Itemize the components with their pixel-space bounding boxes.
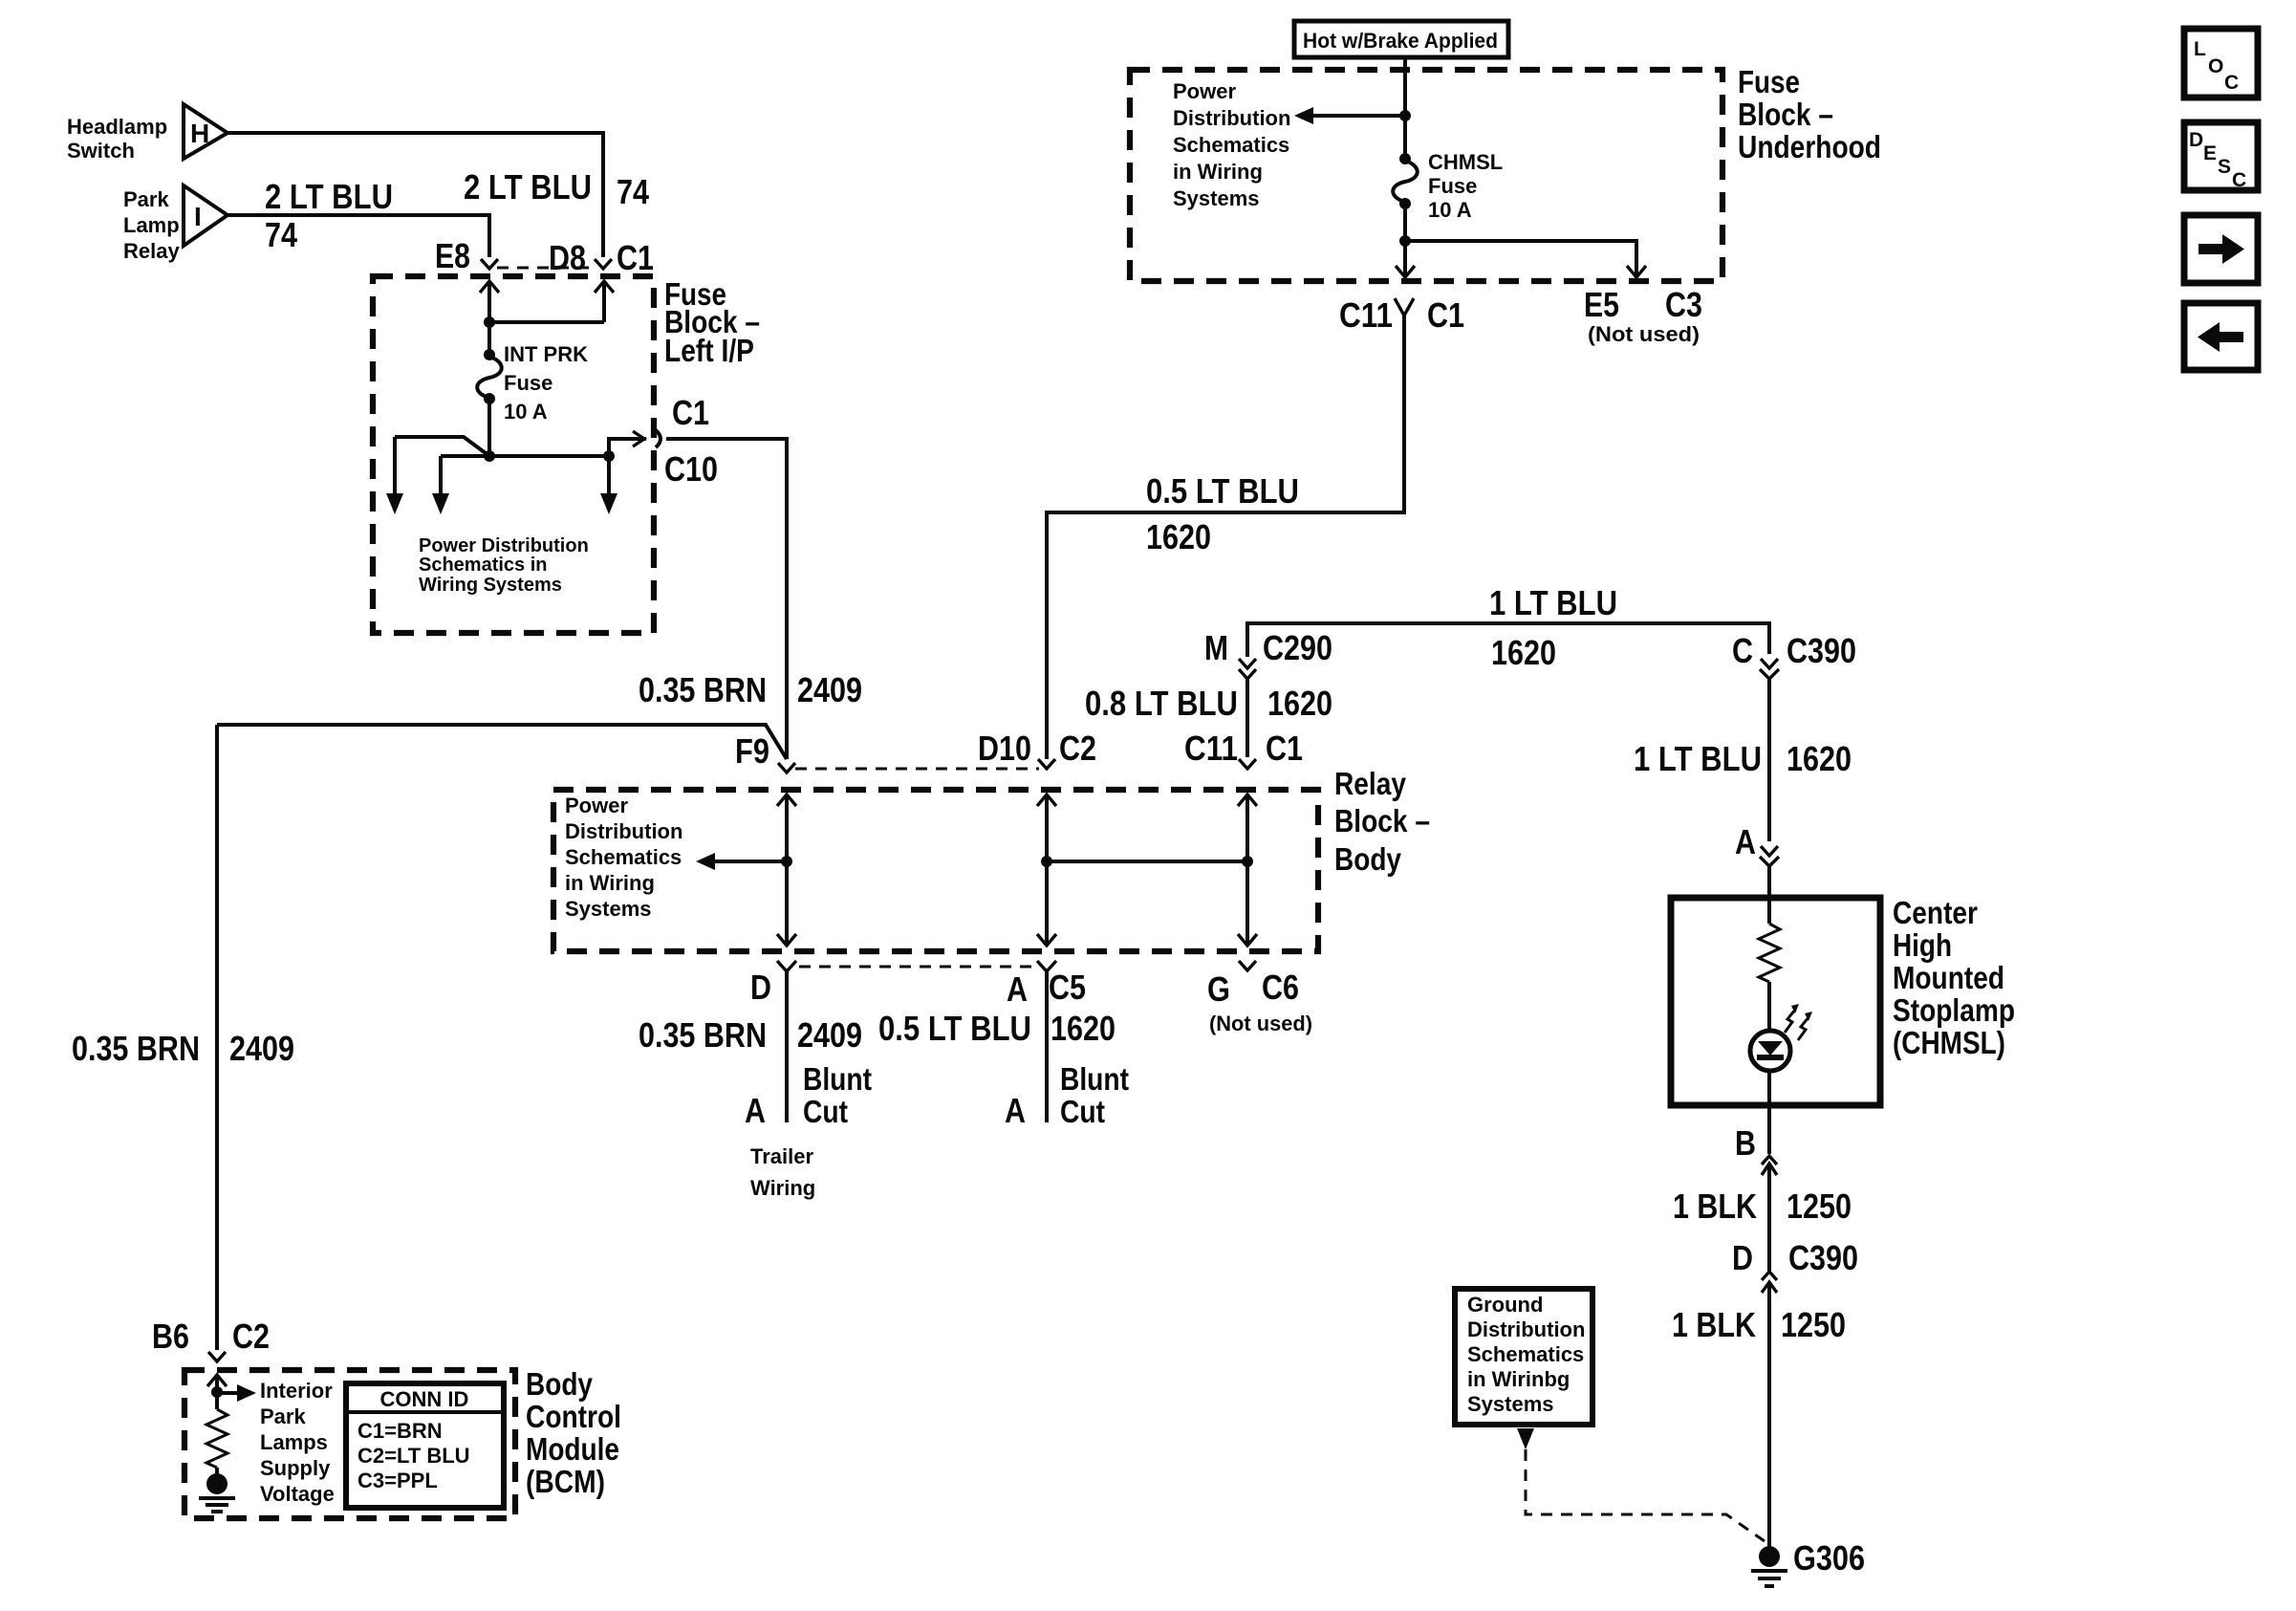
svg-text:D10: D10 xyxy=(978,729,1031,768)
fuse block left I/P dashed box xyxy=(373,276,654,633)
junction dot hot feed xyxy=(1399,110,1411,121)
connector chevron D8 C1 xyxy=(595,259,612,269)
svg-text:D: D xyxy=(750,968,771,1007)
svg-text:E: E xyxy=(2203,142,2217,164)
wire up jog to C1 C10 connector xyxy=(609,439,646,456)
wire branch to E5 xyxy=(1405,241,1636,275)
wire down exit G with arrow xyxy=(1238,861,1257,946)
wire horizontal distribution xyxy=(441,454,609,458)
svg-text:C: C xyxy=(1732,631,1753,670)
wire resistor to ground ball xyxy=(215,1468,219,1477)
junction dot below CHMSL fuse xyxy=(1399,235,1411,247)
svg-text:Hot w/Brake Applied: Hot w/Brake Applied xyxy=(1303,29,1498,53)
connector chevron G C6 xyxy=(1239,961,1256,970)
svg-text:1250: 1250 xyxy=(1781,1305,1846,1344)
thin dashed line F9 to D10 xyxy=(795,768,1039,771)
svg-text:D: D xyxy=(1732,1238,1753,1277)
svg-text:G: G xyxy=(1207,969,1230,1009)
resistor bcm xyxy=(206,1409,227,1468)
svg-text:L: L xyxy=(2194,38,2206,60)
connector chevron E8 xyxy=(481,259,498,269)
icon box arrow left xyxy=(2184,303,2258,370)
fuse INT PRK bottom terminal dot xyxy=(484,393,495,404)
svg-text:0.35 BRN: 0.35 BRN xyxy=(639,670,767,709)
wire drop right branch xyxy=(607,456,611,494)
wire from I to E8 xyxy=(227,215,489,257)
ground ball bcm xyxy=(206,1473,227,1494)
arrow up into F9 inside relay block xyxy=(777,795,796,861)
connector C C390 xyxy=(1760,659,1779,679)
wire 0.35 BRN horizontal to F9 xyxy=(217,725,787,759)
fuse CHMSL element xyxy=(1393,161,1418,202)
svg-text:Wiring: Wiring xyxy=(750,1176,815,1200)
svg-text:0.35 BRN: 0.35 BRN xyxy=(72,1029,200,1068)
arrow right interior park lamps xyxy=(217,1384,256,1402)
wire jumper E8 branch to D8 branch xyxy=(489,320,604,324)
fuse INT PRK element xyxy=(477,357,502,398)
wire drop left branch 1 xyxy=(393,437,397,494)
svg-text:C11: C11 xyxy=(1184,729,1238,768)
svg-text:Headlamp: Headlamp xyxy=(67,115,167,139)
svg-text:1620: 1620 xyxy=(1267,684,1332,723)
svg-text:B: B xyxy=(1735,1123,1756,1163)
fuse INT PRK top terminal dot xyxy=(484,349,495,360)
svg-text:(Not used): (Not used) xyxy=(1209,1012,1312,1035)
svg-text:Fuse: Fuse xyxy=(504,371,552,395)
arrow up into D8 inside fuse block xyxy=(595,281,614,322)
connector triangle H headlamp switch xyxy=(184,104,227,159)
arrow down right branch xyxy=(600,493,617,514)
junction dot D10 branch xyxy=(1041,856,1052,867)
ground distribution note box xyxy=(1455,1289,1592,1425)
wire resistor to led xyxy=(1767,982,1771,1032)
connector Y D xyxy=(777,961,796,1122)
thin dashed line E8 to D8 xyxy=(497,267,596,270)
svg-text:74: 74 xyxy=(265,215,297,254)
svg-text:1 LT BLU: 1 LT BLU xyxy=(1634,739,1762,778)
svg-text:Blunt: Blunt xyxy=(803,1061,872,1097)
svg-text:C: C xyxy=(2232,169,2246,191)
svg-text:E5: E5 xyxy=(1584,285,1619,324)
svg-text:Relay: Relay xyxy=(1334,766,1407,801)
arrow up into C11 inside relay block xyxy=(1238,795,1257,861)
ground G306 symbol xyxy=(1751,1546,1787,1586)
junction dot on E8 wire xyxy=(484,316,495,328)
svg-text:G306: G306 xyxy=(1793,1538,1865,1578)
svg-text:1 BLK: 1 BLK xyxy=(1672,1305,1756,1344)
dashed wire ground note to G306 xyxy=(1526,1449,1765,1541)
wire to power distribution arrow xyxy=(1311,114,1405,118)
chmsl lamp box xyxy=(1671,898,1880,1105)
body control module dashed box xyxy=(184,1370,515,1518)
wire fuse feed xyxy=(487,322,491,355)
svg-text:Trailer: Trailer xyxy=(750,1144,813,1168)
connector Y A C5 xyxy=(1037,961,1056,1122)
arrow down exit E5 xyxy=(1627,266,1646,277)
svg-text:CHMSL: CHMSL xyxy=(1428,150,1503,174)
svg-text:2409: 2409 xyxy=(797,1015,862,1055)
svg-text:1 BLK: 1 BLK xyxy=(1673,1186,1757,1226)
svg-text:A: A xyxy=(1007,969,1028,1009)
svg-text:C11: C11 xyxy=(1339,295,1393,335)
svg-text:2409: 2409 xyxy=(229,1029,294,1068)
connector Y C11 C1 xyxy=(1395,298,1414,327)
svg-text:1620: 1620 xyxy=(1146,517,1211,556)
svg-text:D8: D8 xyxy=(549,238,586,277)
resistor chmsl xyxy=(1759,924,1780,982)
svg-text:A: A xyxy=(1005,1091,1026,1130)
connector chevron F9 xyxy=(778,763,795,773)
wire B to D connector xyxy=(1767,1164,1771,1272)
svg-text:C10: C10 xyxy=(664,449,718,489)
led diode triangle xyxy=(1758,1041,1783,1056)
connector M C290 xyxy=(1239,659,1256,679)
led light arrows xyxy=(1785,1004,1812,1040)
wire drop left branch 2 xyxy=(439,456,443,494)
arrow up into B6 inside bcm xyxy=(207,1375,227,1409)
svg-text:C2: C2 xyxy=(1059,729,1096,768)
wire below fuse xyxy=(487,399,491,456)
svg-text:M: M xyxy=(1204,628,1228,667)
wire 0.8 LT BLU segment xyxy=(1245,679,1249,757)
svg-text:C3: C3 xyxy=(1665,285,1702,324)
svg-text:74: 74 xyxy=(617,172,649,211)
svg-text:2 LT BLU: 2 LT BLU xyxy=(265,177,393,216)
fuse CHMSL top terminal dot xyxy=(1399,153,1411,164)
svg-text:Cut: Cut xyxy=(803,1094,848,1129)
svg-text:C390: C390 xyxy=(1787,631,1856,670)
svg-text:C390: C390 xyxy=(1788,1238,1858,1277)
wire to power distribution arrow relay xyxy=(713,860,787,863)
wire branch upper-left staircase xyxy=(395,437,489,456)
svg-text:C6: C6 xyxy=(1262,968,1299,1007)
wire led to box bottom xyxy=(1767,1071,1771,1154)
svg-text:Fuse: Fuse xyxy=(1738,64,1800,99)
led cathode bar xyxy=(1757,1055,1784,1060)
wire into CHMSL fuse xyxy=(1403,116,1407,159)
svg-text:C290: C290 xyxy=(1263,628,1332,667)
svg-text:Cut: Cut xyxy=(1060,1094,1105,1129)
svg-text:C: C xyxy=(2224,72,2239,94)
junction dot C11 branch xyxy=(1242,856,1253,867)
svg-text:Left I/P: Left I/P xyxy=(664,333,754,368)
wire from H to D8 xyxy=(227,133,603,257)
arrow left power distribution relay xyxy=(696,853,715,870)
connector chevron D10 C2 xyxy=(1038,759,1055,769)
arrow down branch 1 xyxy=(386,493,403,514)
icon box arrow right xyxy=(2184,215,2258,283)
ground hatch bcm xyxy=(199,1498,235,1512)
led lamp circle xyxy=(1750,1031,1790,1071)
arrow down exit C11 xyxy=(1396,266,1415,277)
arrow left power distribution xyxy=(1294,107,1313,124)
svg-text:A: A xyxy=(1735,822,1756,861)
wire hot feed down xyxy=(1403,57,1407,116)
conn id table xyxy=(346,1383,504,1508)
fuse CHMSL bottom terminal dot xyxy=(1399,198,1411,209)
svg-text:1250: 1250 xyxy=(1787,1186,1852,1226)
connector chevron C11 C1 relay xyxy=(1239,759,1256,769)
svg-text:Relay: Relay xyxy=(123,239,180,263)
wire 0.35 BRN vertical to BCM xyxy=(215,725,219,1350)
svg-text:1620: 1620 xyxy=(1787,739,1852,778)
svg-text:1 LT BLU: 1 LT BLU xyxy=(1489,583,1617,622)
junction dot below fuse xyxy=(484,450,495,462)
svg-text:E8: E8 xyxy=(435,236,470,275)
svg-text:S: S xyxy=(2218,156,2231,178)
svg-text:0.5 LT BLU: 0.5 LT BLU xyxy=(1146,471,1299,511)
svg-text:CONN ID: CONN ID xyxy=(380,1387,469,1411)
svg-text:2409: 2409 xyxy=(797,670,862,709)
svg-text:C1=BRN: C1=BRN xyxy=(357,1419,443,1443)
svg-text:C1: C1 xyxy=(617,238,654,277)
svg-text:10 A: 10 A xyxy=(504,400,548,424)
connector C1 C10 arrow xyxy=(633,430,661,447)
svg-text:0.35 BRN: 0.35 BRN xyxy=(639,1015,767,1055)
connector A chmsl xyxy=(1760,846,1779,866)
svg-text:C5: C5 xyxy=(1049,968,1086,1007)
wire jumper D10 to C11 xyxy=(1047,860,1247,863)
junction dot bcm xyxy=(211,1386,223,1398)
svg-text:D: D xyxy=(2189,129,2203,151)
svg-text:C1: C1 xyxy=(1266,729,1303,768)
svg-text:Blunt: Blunt xyxy=(1060,1061,1129,1097)
svg-text:C2: C2 xyxy=(232,1317,270,1356)
svg-text:F9: F9 xyxy=(735,731,769,771)
arrow down branch 2 xyxy=(432,493,449,514)
svg-text:1620: 1620 xyxy=(1491,633,1556,672)
svg-text:C1: C1 xyxy=(672,393,709,432)
svg-text:InteriorParkLampsSupplyVoltage: InteriorParkLampsSupplyVoltage xyxy=(260,1379,335,1506)
svg-text:0.8 LT BLU: 0.8 LT BLU xyxy=(1085,684,1238,723)
svg-text:0.5 LT BLU: 0.5 LT BLU xyxy=(878,1009,1031,1048)
svg-text:Lamp: Lamp xyxy=(123,213,180,237)
svg-text:H: H xyxy=(190,119,209,148)
wire down exit A with arrow xyxy=(1037,861,1056,946)
svg-text:C1: C1 xyxy=(1427,295,1464,335)
svg-text:I: I xyxy=(194,202,202,231)
wire 0.5 LT BLU from C1 to D10 xyxy=(1047,327,1404,759)
wire C10 to F9 xyxy=(666,439,787,759)
connector D C390 xyxy=(1762,1272,1777,1293)
svg-text:Fuse: Fuse xyxy=(1428,174,1477,198)
wire 1 LT BLU vertical xyxy=(1767,679,1771,841)
wire D C390 to ground xyxy=(1767,1282,1771,1549)
svg-text:Underhood: Underhood xyxy=(1738,129,1881,164)
wire 1 LT BLU horizontal xyxy=(1247,623,1769,657)
arrow down from ground note box xyxy=(1517,1428,1534,1449)
connector chevron B6 C2 xyxy=(208,1352,226,1361)
junction dot F9 branch xyxy=(781,856,792,867)
relay block body dashed box xyxy=(553,790,1318,951)
svg-text:Park: Park xyxy=(123,187,169,211)
svg-text:B6: B6 xyxy=(152,1317,189,1356)
connector B xyxy=(1762,1156,1777,1175)
icon box DESC xyxy=(2184,122,2258,191)
svg-text:A: A xyxy=(745,1091,766,1130)
svg-text:10 A: 10 A xyxy=(1428,198,1472,222)
junction dot right branch xyxy=(603,450,615,462)
svg-text:2 LT BLU: 2 LT BLU xyxy=(464,167,592,207)
wire into chmsl box xyxy=(1767,866,1771,924)
svg-text:(Not used): (Not used) xyxy=(1588,322,1700,346)
fuse block underhood dashed box xyxy=(1130,70,1722,281)
svg-text:Block –: Block – xyxy=(1738,97,1833,132)
svg-text:C2=LT BLU: C2=LT BLU xyxy=(357,1444,470,1468)
svg-text:O: O xyxy=(2208,55,2223,77)
svg-text:Body: Body xyxy=(1334,841,1402,877)
hot w/brake applied box xyxy=(1294,21,1508,57)
arrow up into D10 inside relay block xyxy=(1037,795,1056,861)
svg-text:Switch: Switch xyxy=(67,139,135,163)
svg-text:Block –: Block – xyxy=(1334,803,1430,838)
svg-text:1620: 1620 xyxy=(1051,1009,1116,1048)
arrow up into E8 inside fuse block xyxy=(480,281,499,322)
svg-text:C3=PPL: C3=PPL xyxy=(357,1469,438,1492)
svg-text:INT PRK: INT PRK xyxy=(504,342,588,366)
wire down exit D with arrow xyxy=(777,861,796,946)
icon box LOC xyxy=(2184,29,2258,98)
connector triangle I park lamp relay xyxy=(184,185,227,246)
wire below CHMSL fuse xyxy=(1403,204,1407,275)
thin dashed line D to A xyxy=(799,966,1034,969)
